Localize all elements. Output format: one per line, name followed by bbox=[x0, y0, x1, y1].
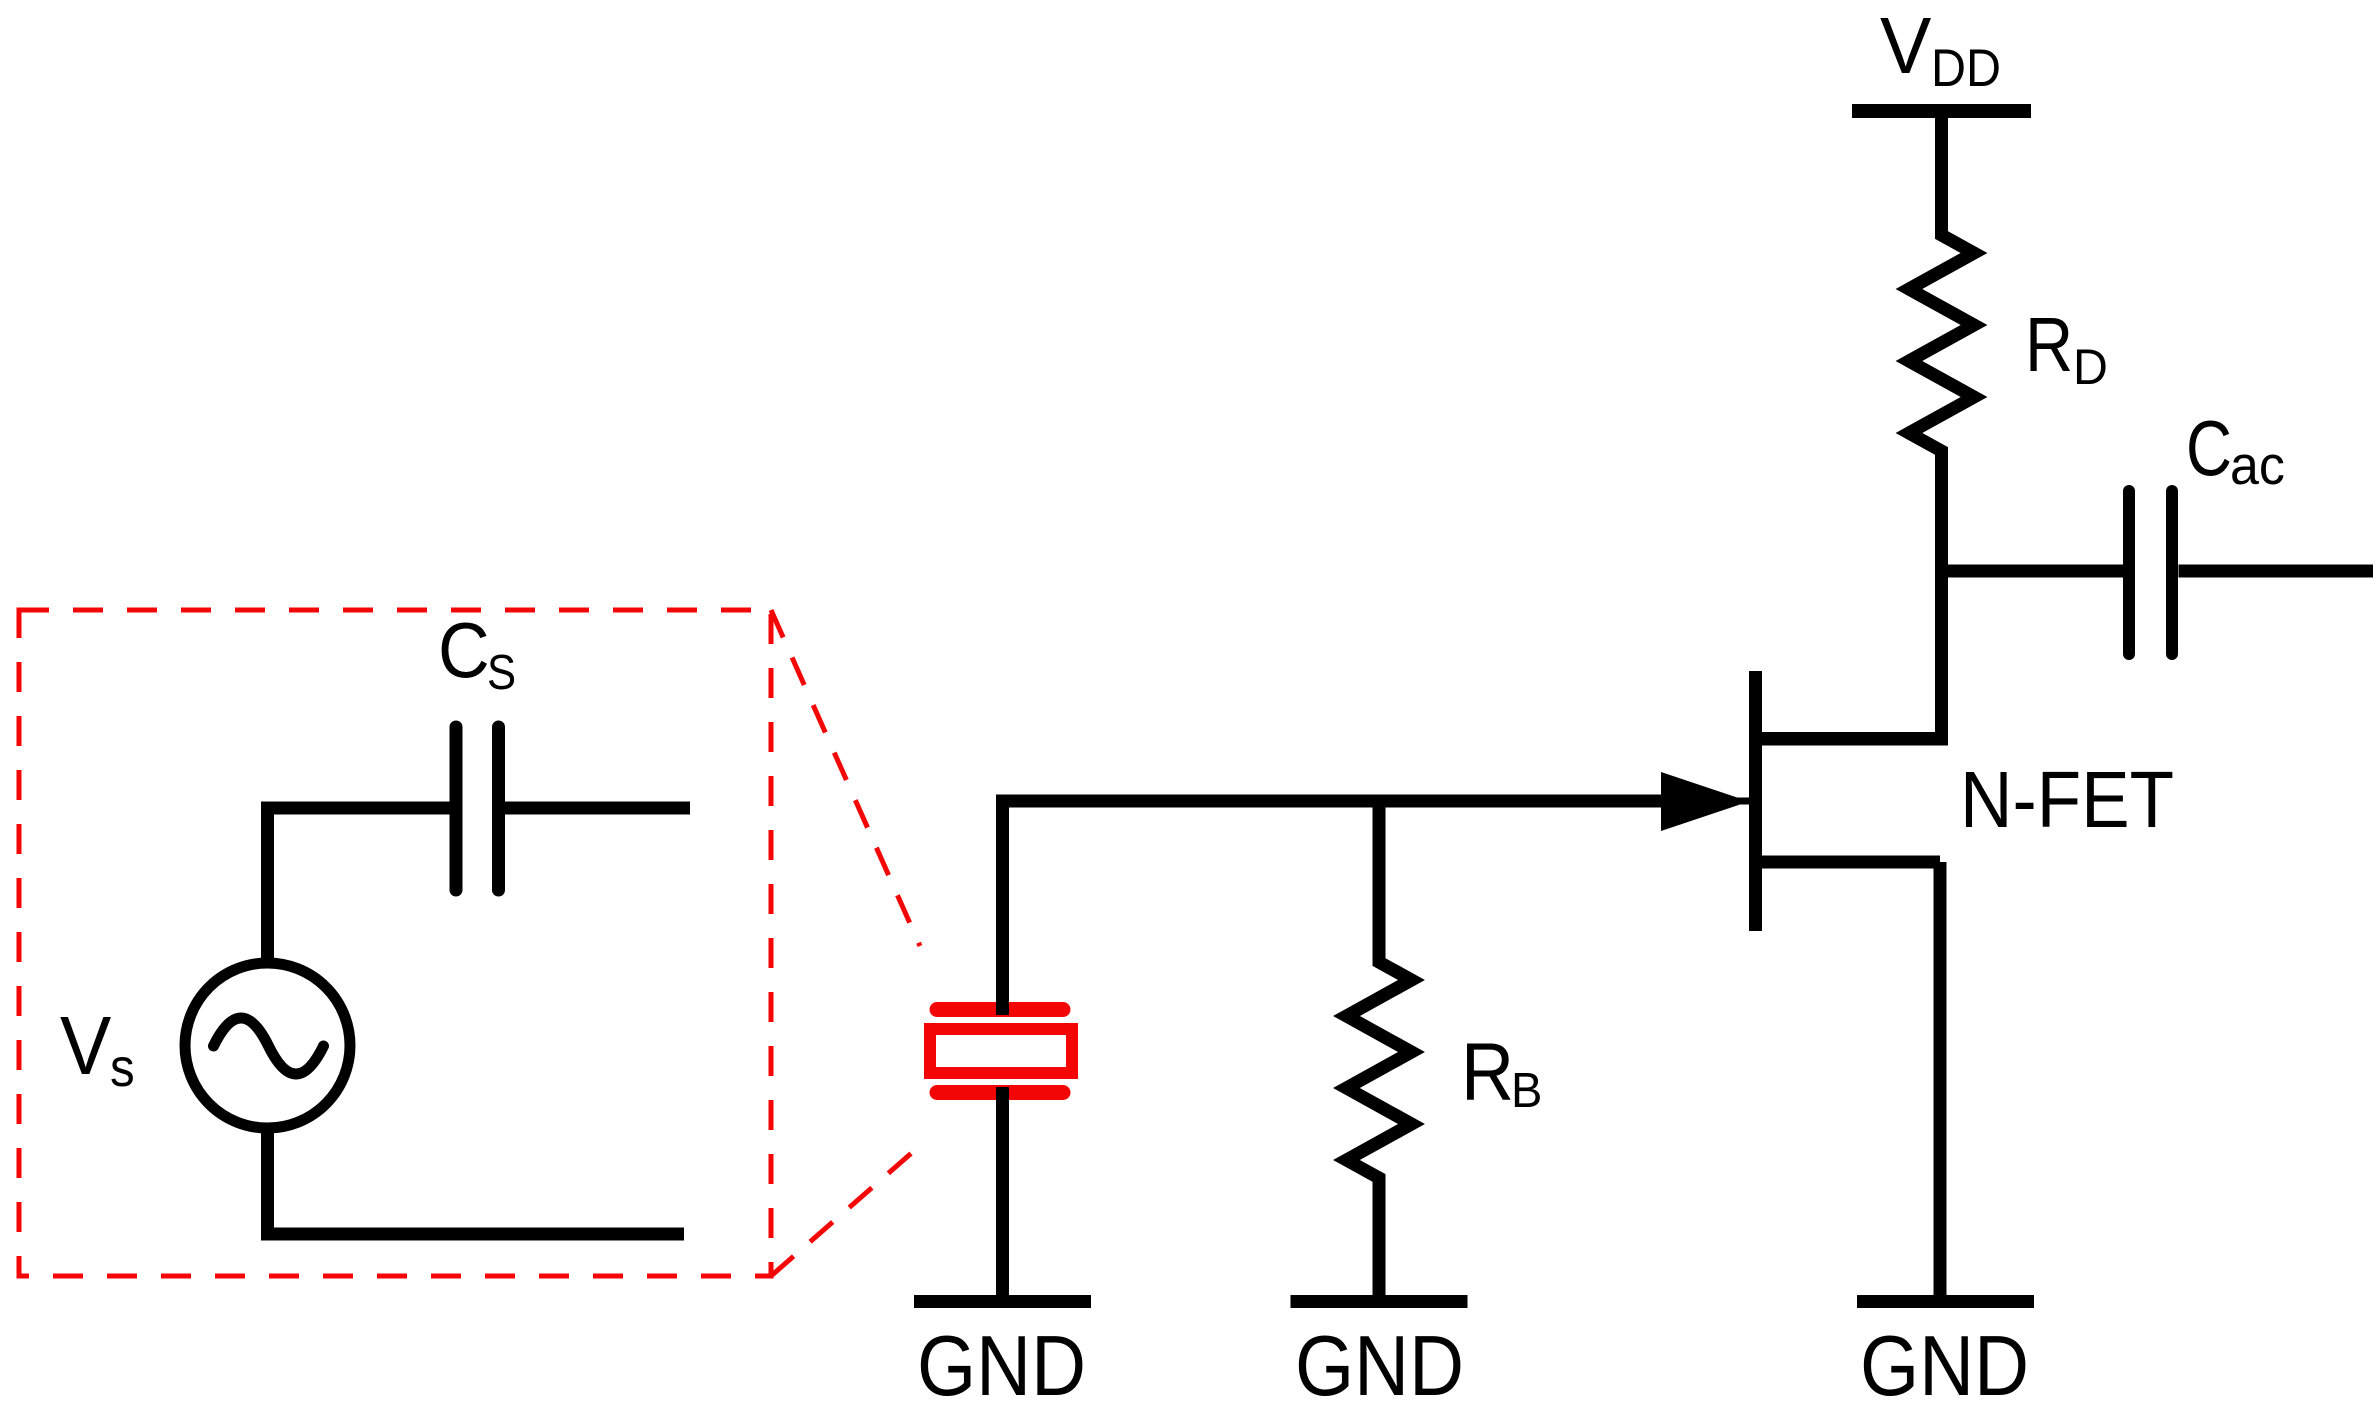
transistor N-FET bbox=[1661, 671, 1942, 931]
capacitor CS bbox=[456, 727, 499, 890]
svg-text:GND: GND bbox=[917, 1319, 1086, 1402]
piezo sensor element (red) bbox=[930, 1010, 1072, 1093]
svg-text:R: R bbox=[1461, 1027, 1514, 1118]
gate wire thin segment to channel bbox=[1670, 798, 1751, 805]
callout dashed line top bbox=[771, 610, 920, 946]
wire sensor to gate node and gate bus bbox=[1003, 801, 1671, 1015]
svg-text:N-FET: N-FET bbox=[1960, 755, 2174, 844]
wire output right bbox=[2179, 565, 2374, 578]
wire CS right bbox=[505, 802, 690, 815]
label CS bbox=[438, 606, 516, 700]
voltage source VS bbox=[185, 963, 350, 1128]
svg-text:GND: GND bbox=[1860, 1319, 2029, 1402]
source-equivalent dashed box bbox=[19, 610, 771, 1276]
wire output left bbox=[1942, 565, 2124, 578]
svg-text:V: V bbox=[60, 999, 111, 1092]
svg-text:R: R bbox=[2025, 302, 2073, 388]
callout dashed line bottom bbox=[771, 1150, 915, 1276]
wire CS left to source VS bbox=[268, 808, 451, 958]
wire VS bottom bbox=[268, 1133, 685, 1234]
svg-text:GND: GND bbox=[1295, 1319, 1464, 1402]
label RB bbox=[1461, 1027, 1542, 1118]
ground (sensor) bbox=[914, 1295, 1091, 1308]
label Cac bbox=[2186, 404, 2285, 496]
svg-text:S: S bbox=[487, 646, 516, 700]
svg-text:D: D bbox=[2073, 339, 2108, 395]
svg-text:C: C bbox=[438, 606, 490, 694]
resistor RD with leads to VDD and drain bbox=[1756, 117, 1974, 739]
label VDD bbox=[1880, 1, 2001, 98]
resistor RB bbox=[1347, 801, 1412, 1295]
label RD bbox=[2025, 302, 2108, 395]
svg-text:V: V bbox=[1880, 1, 1932, 90]
capacitor Cac bbox=[2129, 491, 2172, 654]
ground (N-FET) bbox=[1857, 1295, 2034, 1308]
svg-text:ac: ac bbox=[2230, 434, 2285, 496]
label VS bbox=[60, 999, 135, 1098]
svg-text:B: B bbox=[1511, 1064, 1542, 1118]
ground (RB) bbox=[1291, 1295, 1468, 1308]
svg-text:C: C bbox=[2186, 404, 2232, 492]
svg-text:DD: DD bbox=[1931, 39, 2001, 98]
svg-text:s: s bbox=[110, 1038, 135, 1098]
wire sensor to ground bbox=[996, 1087, 1009, 1295]
power VDD bar bbox=[1852, 104, 2031, 118]
wire source to ground bbox=[1934, 862, 1947, 1295]
